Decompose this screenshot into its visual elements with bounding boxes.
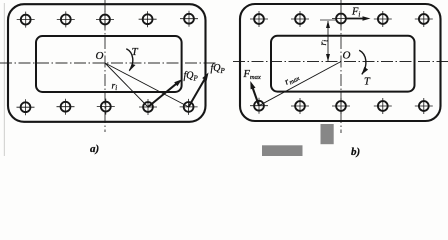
bolt hole a bottom 1 (17, 99, 35, 115)
torque arc T b (359, 50, 368, 75)
plate b inner opening (271, 36, 415, 92)
bolt hole a top 1 (17, 12, 35, 28)
bolt hole b bottom 2 (291, 98, 309, 114)
bolt holes figure a (17, 11, 199, 116)
plate a inner opening (36, 36, 182, 92)
bolt hole a top 2 (57, 11, 75, 27)
radius line r_max b (259, 62, 341, 106)
svg-text:Fi: Fi (351, 7, 360, 19)
plate b outer outline (240, 4, 441, 121)
svg-text:fQP: fQP (184, 71, 199, 83)
svg-text:T: T (364, 77, 371, 88)
svg-text:fQP: fQP (211, 63, 226, 75)
bolt hole a top 4 (139, 11, 157, 27)
dimension line r_i b (326, 21, 330, 62)
bolt hole b top 4 (374, 11, 392, 27)
redaction gray block 1 (321, 124, 334, 144)
bolt hole a bottom 3 (97, 99, 115, 115)
svg-text:ri: ri (112, 82, 118, 93)
svg-text:Fmax: Fmax (243, 69, 261, 81)
bolt hole b bottom 3 (332, 98, 350, 114)
svg-text:T: T (132, 46, 139, 58)
torque arc T a (126, 49, 135, 72)
figure b) right flange plate (233, 0, 448, 133)
redaction gray block 2 (262, 145, 303, 156)
bolt hole a top 3 (96, 12, 114, 28)
svg-text:b): b) (351, 146, 360, 158)
bolt hole a bottom 4 (139, 99, 157, 115)
bolt hole b top 1 (250, 11, 268, 27)
plate a outer outline (8, 4, 206, 122)
svg-text:O: O (96, 50, 104, 62)
svg-text:rmax: rmax (283, 72, 301, 88)
figure a) left flange plate (0, 0, 218, 132)
bolt hole b bottom 1 (250, 98, 268, 114)
bolt hole b top 5 (415, 11, 433, 27)
svg-text:ri: ri (319, 40, 330, 46)
bolt hole a bottom 2 (57, 99, 75, 115)
bolt hole b top 3 (332, 11, 350, 27)
bolt hole b top 2 (291, 11, 309, 27)
bolt hole a bottom 5 (180, 99, 198, 115)
extension line for r_i dimension b (320, 19, 336, 21)
bolt hole b bottom 4 (374, 98, 392, 114)
svg-text:a): a) (90, 143, 99, 155)
bolt hole b bottom 5 (415, 98, 433, 114)
centerline vertical b (340, 0, 342, 133)
bolt holes figure b (250, 11, 433, 115)
bolt hole a top 5 (180, 11, 198, 27)
centerline horizontal a (0, 62, 218, 64)
force arrow F_max b (250, 81, 259, 106)
centerline vertical a (104, 0, 106, 132)
centerline horizontal b (233, 61, 448, 63)
friction force arrow fQp on bolt 4 (148, 79, 182, 107)
radius line to corner bolt a (105, 63, 189, 107)
friction force arrow fQp on bolt 5 (189, 73, 209, 108)
radius line r_i a (105, 63, 148, 107)
force arrow F_i on top bolt b (345, 16, 371, 20)
svg-text:O: O (343, 50, 351, 62)
